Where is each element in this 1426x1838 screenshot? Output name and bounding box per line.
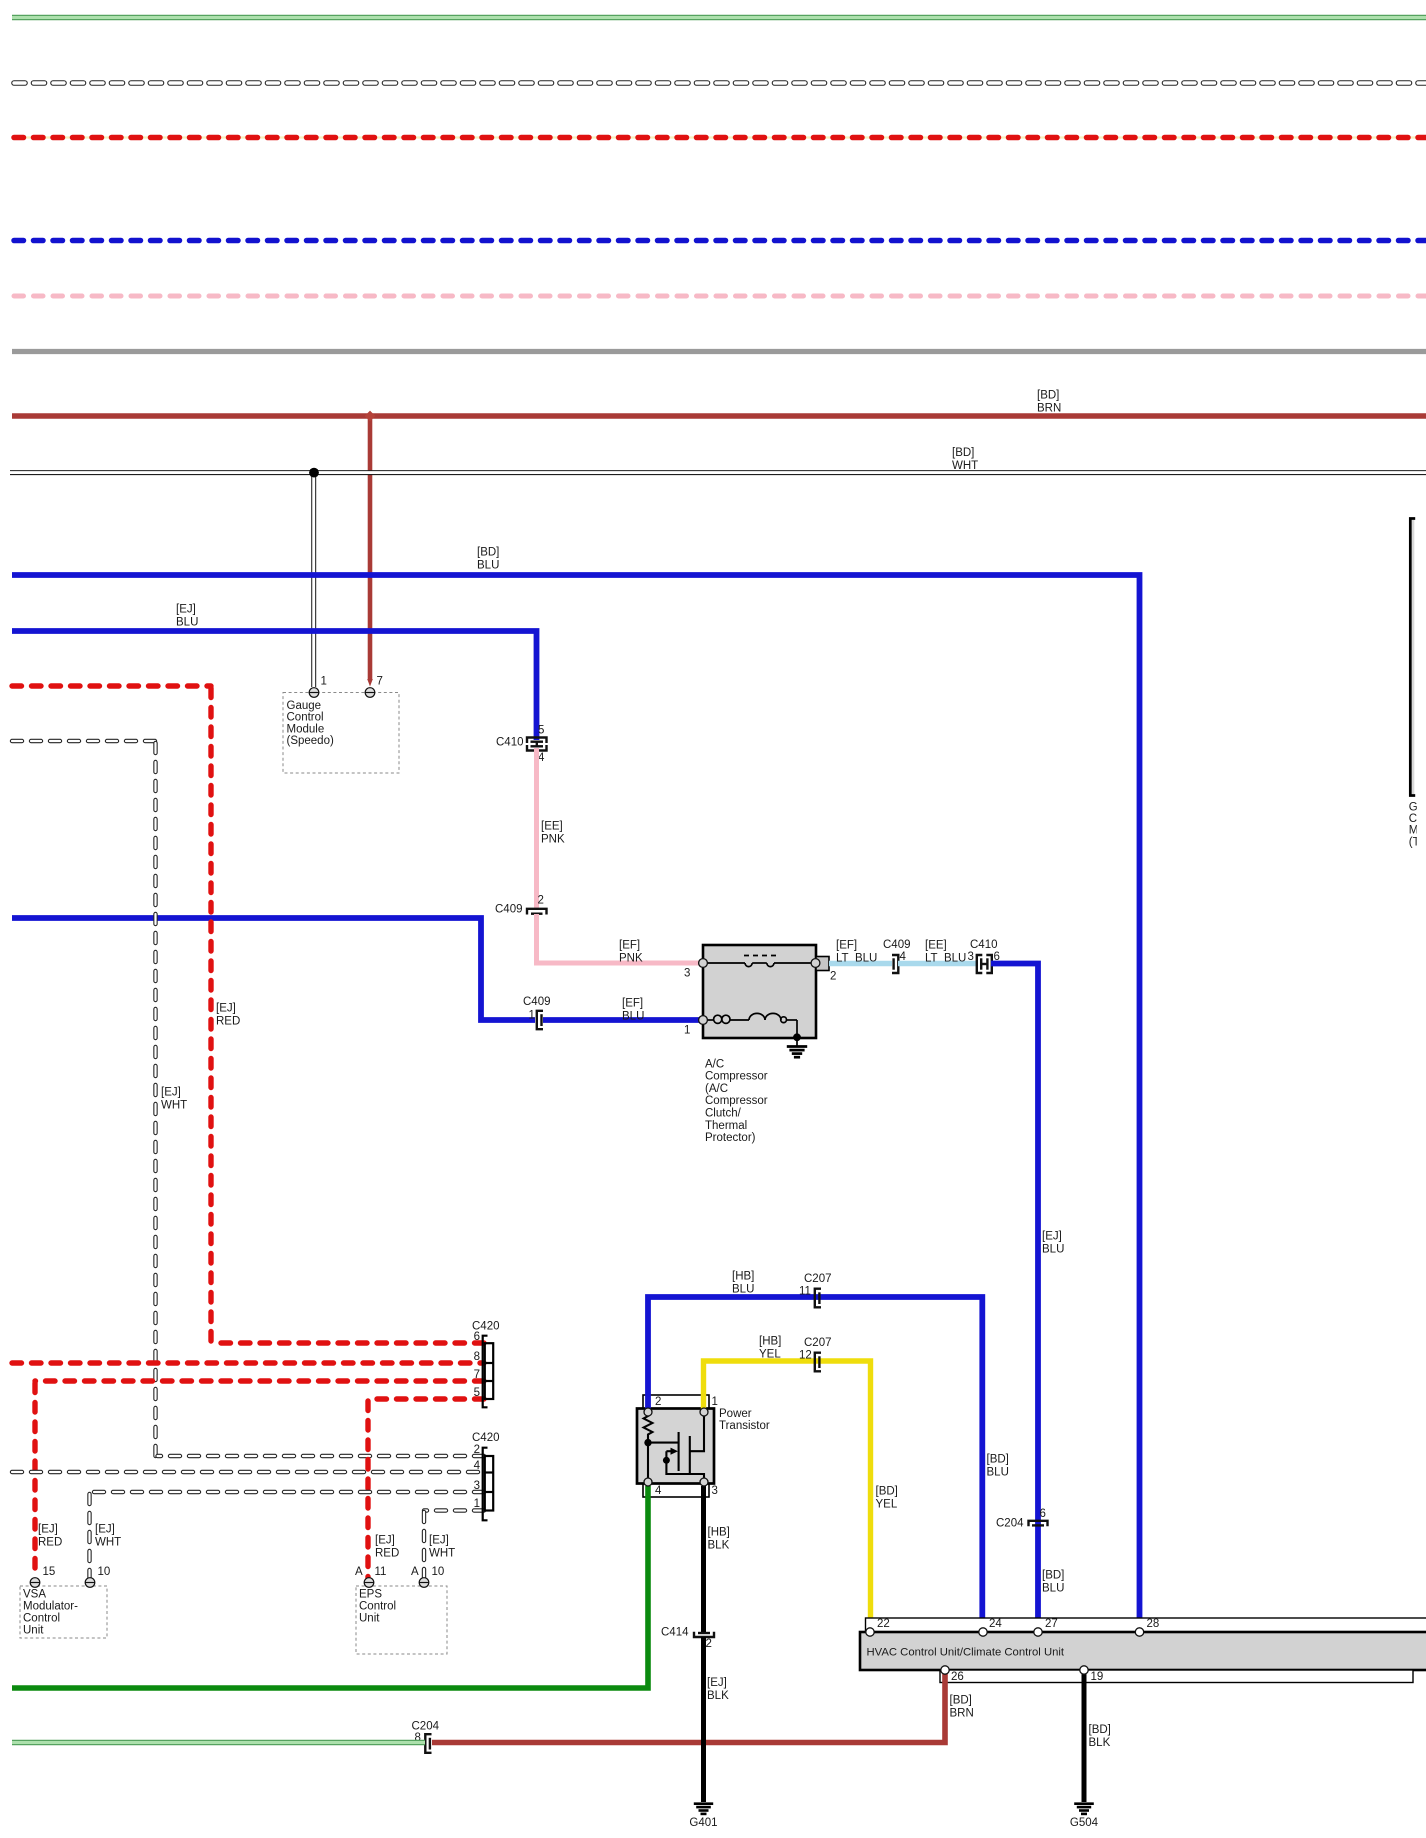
wire PNK dashed bus <box>14 294 1426 299</box>
connector C207 (pin 12) <box>815 1353 821 1372</box>
terminal A/C pin 1 <box>699 1016 708 1025</box>
svg-text:A: A <box>411 1566 419 1578</box>
wire [EJ] BLU (C410-6 to HVAC pin 27, via C204-6) <box>991 964 1064 1631</box>
wire [EJ] RED dashed (bus to C420 pin 6) <box>12 686 484 1343</box>
svg-text:BLU: BLU <box>987 1467 1009 1479</box>
svg-text:YEL: YEL <box>876 1499 898 1511</box>
svg-text:10: 10 <box>432 1566 445 1578</box>
wire WHT dashed (bus to C420 pin 4) <box>12 1470 484 1474</box>
svg-text:2: 2 <box>474 1444 480 1456</box>
connector C409 (pin 4) <box>892 955 898 973</box>
wire [EJ] BLU (bus to C410 pin 5) <box>12 603 537 740</box>
svg-text:WHT: WHT <box>161 1100 187 1112</box>
svg-text:Compressor: Compressor <box>705 1071 768 1083</box>
svg-text:[BD]: [BD] <box>952 447 974 459</box>
wire [EJ] RED dashed (C420 pin 7 to VSA pin 15) <box>35 1381 484 1578</box>
svg-text:HVAC Control Unit/Climate Cont: HVAC Control Unit/Climate Control Unit <box>867 1647 1065 1659</box>
svg-text:6: 6 <box>474 1331 480 1343</box>
svg-text:[HB]: [HB] <box>732 1270 754 1282</box>
svg-text:[EJ]: [EJ] <box>161 1086 181 1098</box>
terminal Gauge pin 1 <box>309 688 319 698</box>
svg-text:YEL: YEL <box>759 1349 781 1361</box>
svg-text:[EE]: [EE] <box>925 939 947 951</box>
Gauge Control Module (clipped at right edge) <box>1409 519 1426 849</box>
svg-text:[EJ]: [EJ] <box>38 1523 58 1535</box>
A/C Compressor (A/C Compressor Clutch / Thermal Protector) <box>684 945 836 1144</box>
HVAC Control Unit / Climate Control Unit <box>860 1618 1426 1683</box>
svg-text:BLU: BLU <box>176 617 198 629</box>
wire [HB] BLU (PT pin 2 to HVAC pin 24, via C207-11) <box>648 1270 1009 1630</box>
wire [HB] BLK (PT pin 3 to C414-2) <box>704 1486 730 1632</box>
svg-text:WHT: WHT <box>95 1537 121 1549</box>
svg-text:C409: C409 <box>523 996 551 1008</box>
svg-text:PNK: PNK <box>619 953 643 965</box>
svg-text:1: 1 <box>529 1009 535 1021</box>
terminal HVAC pin 28 <box>1135 1628 1143 1636</box>
connector C207 (pin 11) <box>815 1289 821 1308</box>
svg-text:(Speedo): (Speedo) <box>287 735 334 747</box>
wire [EJ] WHT dashed (bus to C420 pin 2) <box>12 741 484 1456</box>
wire WHT dashed bus <box>14 80 1426 86</box>
svg-text:A: A <box>355 1566 363 1578</box>
svg-text:C410: C410 <box>496 736 524 748</box>
wire GRY bus <box>12 349 1426 354</box>
svg-text:Gauge: Gauge <box>287 700 322 712</box>
svg-text:3: 3 <box>968 951 974 963</box>
svg-text:10: 10 <box>98 1566 111 1578</box>
svg-text:A/C: A/C <box>705 1058 724 1070</box>
svg-text:[EJ]: [EJ] <box>216 1002 236 1014</box>
svg-text:5: 5 <box>474 1387 480 1399</box>
svg-text:C204: C204 <box>996 1517 1024 1529</box>
svg-text:BRN: BRN <box>1037 403 1061 415</box>
wire [EJ] RED dashed (C420 pin 5 to EPS pin A11) <box>368 1399 484 1578</box>
terminal HVAC pin 19 <box>1080 1666 1088 1674</box>
wire GRN (exits left, to C204-8) <box>12 1740 425 1746</box>
terminal EPS pin A10 <box>419 1578 429 1588</box>
svg-text:2: 2 <box>538 894 544 906</box>
svg-text:[BD]: [BD] <box>1042 1569 1064 1581</box>
svg-text:C204: C204 <box>412 1720 440 1732</box>
svg-text:[EJ]: [EJ] <box>707 1677 727 1689</box>
svg-text:7: 7 <box>377 675 383 687</box>
svg-text:WHT: WHT <box>429 1548 455 1560</box>
Gauge Control Module (Speedo) <box>283 675 399 773</box>
svg-text:3: 3 <box>712 1485 718 1497</box>
connector C410 (pins 5/4) <box>527 738 547 751</box>
terminal EPS pin A11 <box>364 1578 374 1588</box>
svg-text:C207: C207 <box>804 1337 832 1349</box>
svg-text:3: 3 <box>474 1480 480 1492</box>
svg-text:22: 22 <box>877 1618 890 1630</box>
svg-text:C420: C420 <box>472 1432 500 1444</box>
svg-text:C409: C409 <box>883 939 911 951</box>
svg-text:[BD]: [BD] <box>876 1485 898 1497</box>
svg-text:BLU: BLU <box>732 1284 754 1296</box>
svg-text:EPS: EPS <box>359 1588 382 1600</box>
svg-text:[EE]: [EE] <box>541 820 563 832</box>
svg-text:Control: Control <box>23 1612 60 1624</box>
terminal HVAC pin 26 <box>941 1666 949 1674</box>
svg-text:Clutch/: Clutch/ <box>705 1108 742 1120</box>
svg-text:8: 8 <box>474 1351 480 1363</box>
svg-text:WHT: WHT <box>952 460 978 472</box>
terminal A/C pin 3 <box>699 959 708 968</box>
connector C409 (pin 1) <box>537 1011 543 1029</box>
svg-text:[BD]: [BD] <box>950 1694 972 1706</box>
svg-text:BLU: BLU <box>622 1011 644 1023</box>
svg-text:11: 11 <box>799 1285 811 1297</box>
svg-text:[BD]: [BD] <box>477 546 499 558</box>
svg-text:BLK: BLK <box>1089 1737 1111 1749</box>
wire [EJ] BLK (overlay at BRN crossing) <box>701 1734 706 1751</box>
svg-text:Control: Control <box>359 1600 396 1612</box>
terminal HVAC pin 22 <box>866 1628 874 1636</box>
wire [HB] YEL (PT pin 1 to HVAC pin 22, via C207-12) <box>704 1335 898 1630</box>
wire RED/YEL dashed bus <box>14 136 1426 138</box>
svg-text:LT BLU: LT BLU <box>925 953 966 965</box>
terminal VSA pin 10 <box>85 1578 95 1588</box>
terminal HVAC pin 24 <box>979 1628 987 1636</box>
wire RED dashed (bus to C420 pin 8) <box>12 1360 484 1365</box>
svg-text:24: 24 <box>989 1618 1002 1630</box>
wire [EF] PNK (C409-2 to A/C pin 3) <box>537 914 701 965</box>
svg-text:1: 1 <box>474 1498 480 1510</box>
svg-text:Protector): Protector) <box>705 1132 756 1144</box>
svg-text:6: 6 <box>1040 1508 1046 1520</box>
svg-text:Thermal: Thermal <box>705 1120 747 1132</box>
svg-text:19: 19 <box>1091 1671 1104 1683</box>
wire [EJ] BLK (C414-2 to ground G401) <box>704 1637 730 1802</box>
svg-text:4: 4 <box>538 752 545 764</box>
connector C420 (pins 6/8/7/5) <box>483 1336 494 1408</box>
wire [BD] BRN (HVAC pin 26 to C204-8) <box>432 1672 974 1743</box>
svg-text:7: 7 <box>474 1369 480 1381</box>
svg-text:Modulator-: Modulator- <box>23 1600 78 1612</box>
svg-text:5: 5 <box>538 724 544 736</box>
svg-text:11: 11 <box>375 1566 387 1578</box>
svg-text:(A/C: (A/C <box>705 1083 728 1095</box>
svg-text:BLU: BLU <box>1042 1244 1064 1256</box>
svg-text:[BD]: [BD] <box>1037 389 1059 401</box>
svg-text:12: 12 <box>799 1349 812 1361</box>
svg-text:[EF]: [EF] <box>836 939 857 951</box>
svg-text:G504: G504 <box>1070 1817 1099 1829</box>
svg-text:[EJ]: [EJ] <box>95 1523 115 1535</box>
svg-text:C414: C414 <box>661 1626 689 1638</box>
svg-text:LT BLU: LT BLU <box>836 953 877 965</box>
svg-text:[EJ]: [EJ] <box>1042 1230 1062 1242</box>
wire GRN (PT pin 4, exits left) <box>12 1486 648 1688</box>
svg-text:26: 26 <box>951 1671 964 1683</box>
ground G401 <box>689 1804 717 1829</box>
svg-text:[HB]: [HB] <box>759 1335 781 1347</box>
svg-text:4: 4 <box>474 1460 481 1472</box>
svg-text:BLK: BLK <box>707 1690 729 1702</box>
svg-text:2: 2 <box>706 1638 712 1650</box>
terminal PT pin 2 <box>644 1408 652 1416</box>
svg-text:BRN: BRN <box>950 1708 974 1720</box>
svg-text:RED: RED <box>375 1548 399 1560</box>
wire [EJ] BLU (bus to C409 pin 1) <box>12 918 535 1020</box>
connector C409 (pin 2) <box>527 909 547 915</box>
svg-text:2: 2 <box>830 970 836 982</box>
wire [EE] PNK (C410-4 to C409-2) <box>537 748 565 908</box>
svg-text:3: 3 <box>684 967 690 979</box>
svg-text:[EJ]: [EJ] <box>429 1534 449 1546</box>
connector C420 (pins 2/4/3/1) <box>483 1448 494 1521</box>
svg-text:BLK: BLK <box>708 1540 730 1552</box>
wire [EF] BLU (C409-1 to A/C pin 1) <box>543 997 700 1022</box>
terminal Gauge pin 7 <box>365 688 375 698</box>
svg-text:[HB]: [HB] <box>708 1526 730 1538</box>
wire [EJ] WHT dashed (C420 pin 1 to EPS pin A10) <box>424 1511 484 1579</box>
svg-text:4: 4 <box>655 1485 662 1497</box>
svg-text:C409: C409 <box>495 903 523 915</box>
svg-text:28: 28 <box>1147 1618 1160 1630</box>
terminal VSA pin 15 <box>30 1578 40 1588</box>
connector C204 (pin 6) <box>1029 1521 1048 1526</box>
svg-text:Control: Control <box>287 712 324 724</box>
svg-text:Transistor: Transistor <box>719 1420 770 1432</box>
EPS Control Unit <box>355 1566 447 1654</box>
junction (BRN bus / gauge drop) <box>365 411 376 422</box>
svg-text:[BD]: [BD] <box>987 1453 1009 1465</box>
svg-text:C410: C410 <box>970 939 998 951</box>
svg-text:G401: G401 <box>689 1817 717 1829</box>
wire [EJ] WHT dashed (C420 pin 3 to VSA pin 10) <box>90 1492 485 1578</box>
terminal PT pin 3 <box>700 1478 708 1486</box>
wire BLU dashed bus <box>14 238 1426 244</box>
svg-text:RED: RED <box>38 1537 62 1549</box>
svg-text:15: 15 <box>43 1566 56 1578</box>
svg-text:PNK: PNK <box>541 834 565 846</box>
svg-text:Unit: Unit <box>359 1612 380 1624</box>
svg-text:[BD]: [BD] <box>1089 1724 1111 1736</box>
connector C414 (pin 2) <box>694 1632 714 1637</box>
svg-text:VSA: VSA <box>23 1588 46 1600</box>
wire [BD] WHT (bus + drop to Gauge pin 1) <box>10 447 1426 687</box>
svg-text:[EJ]: [EJ] <box>375 1534 395 1546</box>
svg-text:1: 1 <box>321 675 327 687</box>
wire [BD] BRN (bus + drop to Gauge pin 7) <box>12 389 1426 686</box>
svg-text:1: 1 <box>712 1396 718 1408</box>
svg-text:Compressor: Compressor <box>705 1095 768 1107</box>
terminal A/C pin 2 <box>811 959 820 968</box>
svg-text:Unit: Unit <box>23 1624 44 1636</box>
connector C410 (pins 3/6) <box>977 955 992 973</box>
svg-text:BLU: BLU <box>1042 1583 1064 1595</box>
svg-text:27: 27 <box>1045 1618 1058 1630</box>
svg-text:2: 2 <box>655 1396 661 1408</box>
wire [BD] BLK (HVAC pin 19 to ground G504) <box>1084 1672 1111 1802</box>
wire [EE] LT BLU (C409-4 to C410-3) <box>898 939 977 964</box>
svg-text:RED: RED <box>216 1016 240 1028</box>
ground G504 <box>1070 1804 1099 1829</box>
svg-text:1: 1 <box>684 1024 690 1036</box>
svg-text:C207: C207 <box>804 1273 832 1285</box>
svg-text:Power: Power <box>719 1408 752 1420</box>
svg-text:[EF]: [EF] <box>622 997 643 1009</box>
svg-text:Module: Module <box>287 723 325 735</box>
terminal PT pin 1 <box>700 1408 708 1416</box>
junction (WHT bus / gauge drop) <box>309 468 319 478</box>
connector C204 (pin 8) <box>425 1734 431 1753</box>
wire GRN bus (top, exits left/right) <box>12 15 1426 21</box>
svg-text:[EF]: [EF] <box>619 939 640 951</box>
wire [EF] LT BLU (A/C pin 2 to C409-4) <box>829 939 892 964</box>
terminal PT pin 4 <box>644 1478 652 1486</box>
VSA Modulator-Control Unit <box>20 1566 110 1638</box>
wire [BD] BLU (bus to HVAC pin 28) <box>12 546 1140 1630</box>
svg-text:BLU: BLU <box>477 560 499 572</box>
svg-text:[EJ]: [EJ] <box>176 603 196 615</box>
terminal HVAC pin 27 <box>1034 1628 1042 1636</box>
Power Transistor <box>637 1395 770 1497</box>
